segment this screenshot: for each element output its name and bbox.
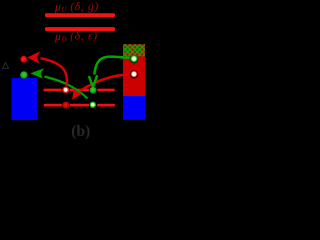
chemical potential line mu_U — [45, 13, 115, 17]
green electron dot on left lead — [20, 71, 28, 79]
lower-right dot: green with white core — [89, 102, 96, 109]
right lead: red band — [123, 56, 145, 96]
lower-left dot: red — [62, 102, 69, 109]
upper-left dot: red with white core — [62, 86, 70, 94]
red arrow R2 shaft: from upper-left dot to red dot above gap — [41, 58, 68, 86]
red arrow R1 shaft: from red ball in right lead to lower-left dot — [80, 74, 132, 91]
red arrow R2 head — [27, 51, 40, 63]
red arrow R1 head — [72, 88, 82, 100]
green arrow G1 shaft: from green ball in right lead to upper-right dot — [94, 57, 131, 75]
red ball in right lead — [130, 70, 138, 78]
chemical potential line mu_D — [45, 27, 115, 31]
Delta gap label — [3, 63, 9, 69]
green arrow G2 shaft: from lower-right dot to left green dot — [45, 77, 88, 99]
green arrow G1 head — [89, 75, 97, 87]
svg-text:μU(δ, g): μU(δ, g) — [54, 1, 99, 14]
svg-text:(b): (b) — [71, 123, 90, 140]
red quasiparticle dot above gap — [20, 56, 27, 63]
upper dot level, left segment — [44, 89, 62, 92]
lower dot level, middle segment — [70, 104, 89, 107]
lower dot level, right segment — [97, 104, 115, 107]
upper dot level, middle segment — [70, 89, 89, 92]
green ball in right lead — [130, 55, 139, 64]
left lead blue block — [12, 78, 38, 120]
green arrow G2 head — [30, 68, 44, 78]
right lead: blue band — [123, 96, 145, 120]
upper dot level, right segment — [97, 89, 115, 92]
lower dot level, left segment — [44, 104, 62, 107]
right lead: hatched filled states — [118, 10, 150, 187]
upper-right dot: green — [90, 87, 97, 94]
svg-text:μD(δ, ε): μD(δ, ε) — [54, 31, 98, 44]
